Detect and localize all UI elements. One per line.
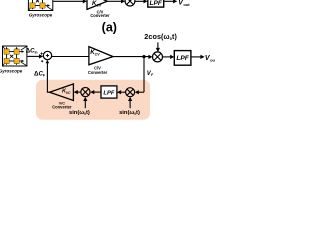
wire multiplier to LPF (a) [135,0,144,2]
wire sin into left multiplier [84,101,86,109]
feedback wire to summing node [47,61,49,92]
junction dot VF [142,55,145,58]
wire amp to multiplier (b) [113,56,149,58]
svg-text:2cos(ω0t): 2cos(ω0t) [144,32,177,41]
multiplier circle (pink right) [126,88,135,97]
op-amp triangle KCV (a) [87,0,107,9]
multiplier circle (a) [125,0,135,6]
op-amp triangle KCV (b) [89,47,113,65]
svg-text:CV: CV [95,53,101,57]
svg-text:CV: CV [96,3,102,7]
svg-text:LPF: LPF [176,55,189,62]
LPF box (a) [148,0,164,7]
wire sin into right multiplier [129,101,131,109]
svg-text:Converter: Converter [88,70,108,75]
wire summing node to C/V amp [52,56,89,58]
wire gyro to summing node [27,55,39,57]
svg-text:Gyroscope: Gyroscope [0,68,23,73]
svg-text:F: F [151,73,154,77]
multiplier circle (pink left) [81,88,90,97]
LPF box (b top) [174,51,191,66]
svg-text:sin(ω0t): sin(ω0t) [69,110,90,116]
V/C amp triangle KVC [50,84,74,101]
wire right multiplier to pink LPF [121,91,126,93]
svg-text:Gyroscope: Gyroscope [29,12,53,17]
wire amp to multiplier (a) [107,0,121,2]
wire 2cos into multiplier [157,42,159,48]
LPF box (pink) [101,86,117,98]
feedback highlight region [36,80,150,120]
gyroscope icon (a) [28,0,52,11]
wire pink LPF to left multiplier [94,91,101,93]
svg-text:Converter: Converter [52,104,72,109]
wire VF into right multiplier [138,91,144,93]
svg-text:(a): (a) [102,21,117,35]
wire LPF to Vout (b) [191,56,201,58]
svg-text:out: out [210,58,215,63]
svg-text:LPF: LPF [103,90,114,96]
wire multiplier to LPF (b top) [163,56,171,58]
wire gyro to C/V amp (a) [53,0,83,2]
plus sign left input [41,53,43,55]
plus sign bottom input [41,60,43,62]
svg-text:VC: VC [66,91,71,95]
svg-text:LPF: LPF [149,0,162,7]
svg-text:Converter: Converter [90,13,110,18]
multiplier circle (b top) [153,52,163,62]
svg-text:ΔCin: ΔCin [26,48,38,54]
svg-text:sin(ω0t): sin(ω0t) [119,110,140,116]
svg-text:ΔCF: ΔCF [34,70,46,77]
gyroscope icon (b) [3,46,27,66]
wire VF feedback vertical [143,57,145,93]
wire LPF to Vout (a) [164,0,174,2]
wire left multiplier to V/C amp [77,91,81,93]
svg-text:out: out [183,2,190,7]
summing node [43,51,51,59]
